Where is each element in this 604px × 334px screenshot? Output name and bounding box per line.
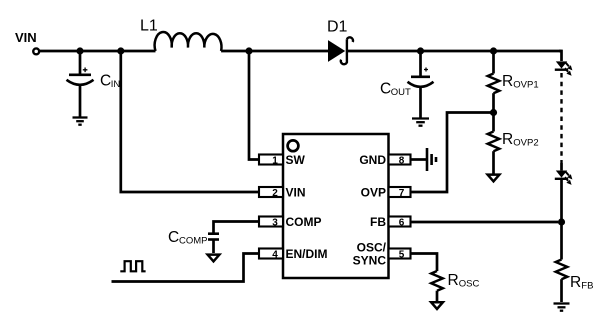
svg-text:VIN: VIN (15, 30, 37, 45)
capacitor C_COMP (208, 234, 219, 253)
wire: diode to LED string (347, 50, 562, 53)
LED D2 (555, 61, 573, 75)
pulse waveform symbol (120, 261, 145, 271)
wire: pin 4 to EN/DIM line (112, 254, 260, 282)
diode D1 (schottky) (328, 37, 353, 64)
inductor L1 (155, 32, 222, 51)
node: COUT tap (417, 47, 424, 54)
LED D3 (555, 163, 573, 222)
wire: pin 8 to ground (411, 158, 427, 161)
node: OVP divider (490, 109, 497, 116)
svg-text:OSC/: OSC/ (357, 240, 387, 254)
capacitor C_OUT (408, 51, 434, 118)
wire: pin 5 to R_OSC (411, 254, 438, 272)
svg-text:5: 5 (399, 250, 405, 261)
svg-text:SW: SW (286, 153, 306, 167)
pin name OSC/SYNC (353, 240, 387, 267)
label R_OVP1 (502, 73, 539, 91)
svg-text:6: 6 (399, 218, 405, 229)
ground (R_FB) (554, 304, 570, 311)
wire: pin 3 to C_COMP (214, 222, 260, 233)
svg-text:2: 2 (272, 188, 278, 199)
svg-text:R: R (570, 274, 581, 291)
pin 7 box (389, 187, 411, 197)
svg-text:C: C (168, 229, 179, 246)
label C_COMP (168, 229, 208, 247)
svg-text:OUT: OUT (391, 87, 411, 98)
resistor R_FB (556, 222, 568, 302)
ground (C_OUT) (412, 119, 429, 126)
svg-text:8: 8 (399, 156, 405, 167)
svg-text:EN/DIM: EN/DIM (286, 247, 328, 261)
pin 5 box (389, 249, 411, 259)
capacitor C_IN (67, 51, 94, 117)
label R_OSC (448, 272, 480, 290)
ground (C_COMP, arrow style) (208, 255, 220, 262)
svg-text:7: 7 (399, 188, 405, 199)
node: VIN pin tap (117, 47, 124, 54)
svg-text:OVP1: OVP1 (513, 80, 538, 91)
pin 1 box (259, 155, 283, 165)
svg-text:R: R (448, 272, 459, 289)
label C_OUT (380, 81, 411, 99)
ground (R_OSC, arrow style) (431, 302, 443, 309)
pin 8 box (389, 155, 411, 165)
svg-text:C: C (380, 81, 391, 98)
svg-text:R: R (502, 131, 513, 148)
VIN input terminal (33, 48, 39, 54)
svg-text:COMP: COMP (179, 235, 208, 246)
svg-text:1: 1 (272, 156, 278, 167)
ground (C_IN) (73, 118, 88, 125)
resistor R_OVP1 (488, 51, 500, 113)
node: CIN tap (76, 47, 83, 54)
svg-text:COMP: COMP (286, 215, 322, 229)
wire: VIN tap to pin 2 (121, 51, 259, 192)
svg-text:C: C (100, 73, 111, 90)
svg-text:OSC: OSC (459, 279, 480, 290)
wire: pin 7 to OVP divider (411, 113, 491, 193)
resistor R_OSC (431, 271, 443, 301)
svg-text:OVP2: OVP2 (513, 138, 538, 149)
pin 6 box (389, 217, 411, 227)
wire: top rail down to LED1 (559, 51, 562, 61)
svg-text:FB: FB (581, 281, 593, 292)
ground (GND pin, rotated bars) (427, 148, 436, 171)
pin 4 box (259, 249, 283, 259)
svg-text:R: R (502, 73, 513, 90)
node: SW tap (245, 47, 252, 54)
label R_FB (570, 274, 593, 292)
wire: inductor to diode (221, 50, 328, 53)
svg-text:VIN: VIN (286, 185, 306, 199)
wire: dashed LED string (560, 73, 562, 163)
pin 3 box (259, 217, 283, 227)
wire: VIN terminal to inductor (40, 50, 156, 53)
svg-text:SYNC: SYNC (353, 253, 387, 267)
label C_IN (100, 73, 120, 91)
wire: SW tap to pin 1 (249, 51, 259, 160)
ground (R_OVP2, arrow style) (488, 175, 500, 182)
pin 2 box (259, 187, 283, 197)
svg-text:3: 3 (272, 218, 278, 229)
svg-text:4: 4 (272, 250, 278, 261)
wire: pin 6 to FB node (411, 221, 559, 224)
label R_OVP2 (502, 131, 539, 149)
svg-text:D1: D1 (327, 19, 348, 36)
IC U1 body (283, 134, 389, 278)
node: FB (558, 218, 565, 225)
svg-text:FB: FB (370, 215, 386, 229)
IC pin-1 indicator circle (288, 140, 299, 151)
svg-text:L1: L1 (140, 18, 158, 35)
svg-text:OVP: OVP (361, 185, 386, 199)
node: ROVP tap (490, 47, 497, 54)
svg-text:GND: GND (359, 153, 386, 167)
resistor R_OVP2 (488, 113, 500, 174)
svg-text:IN: IN (111, 79, 121, 90)
